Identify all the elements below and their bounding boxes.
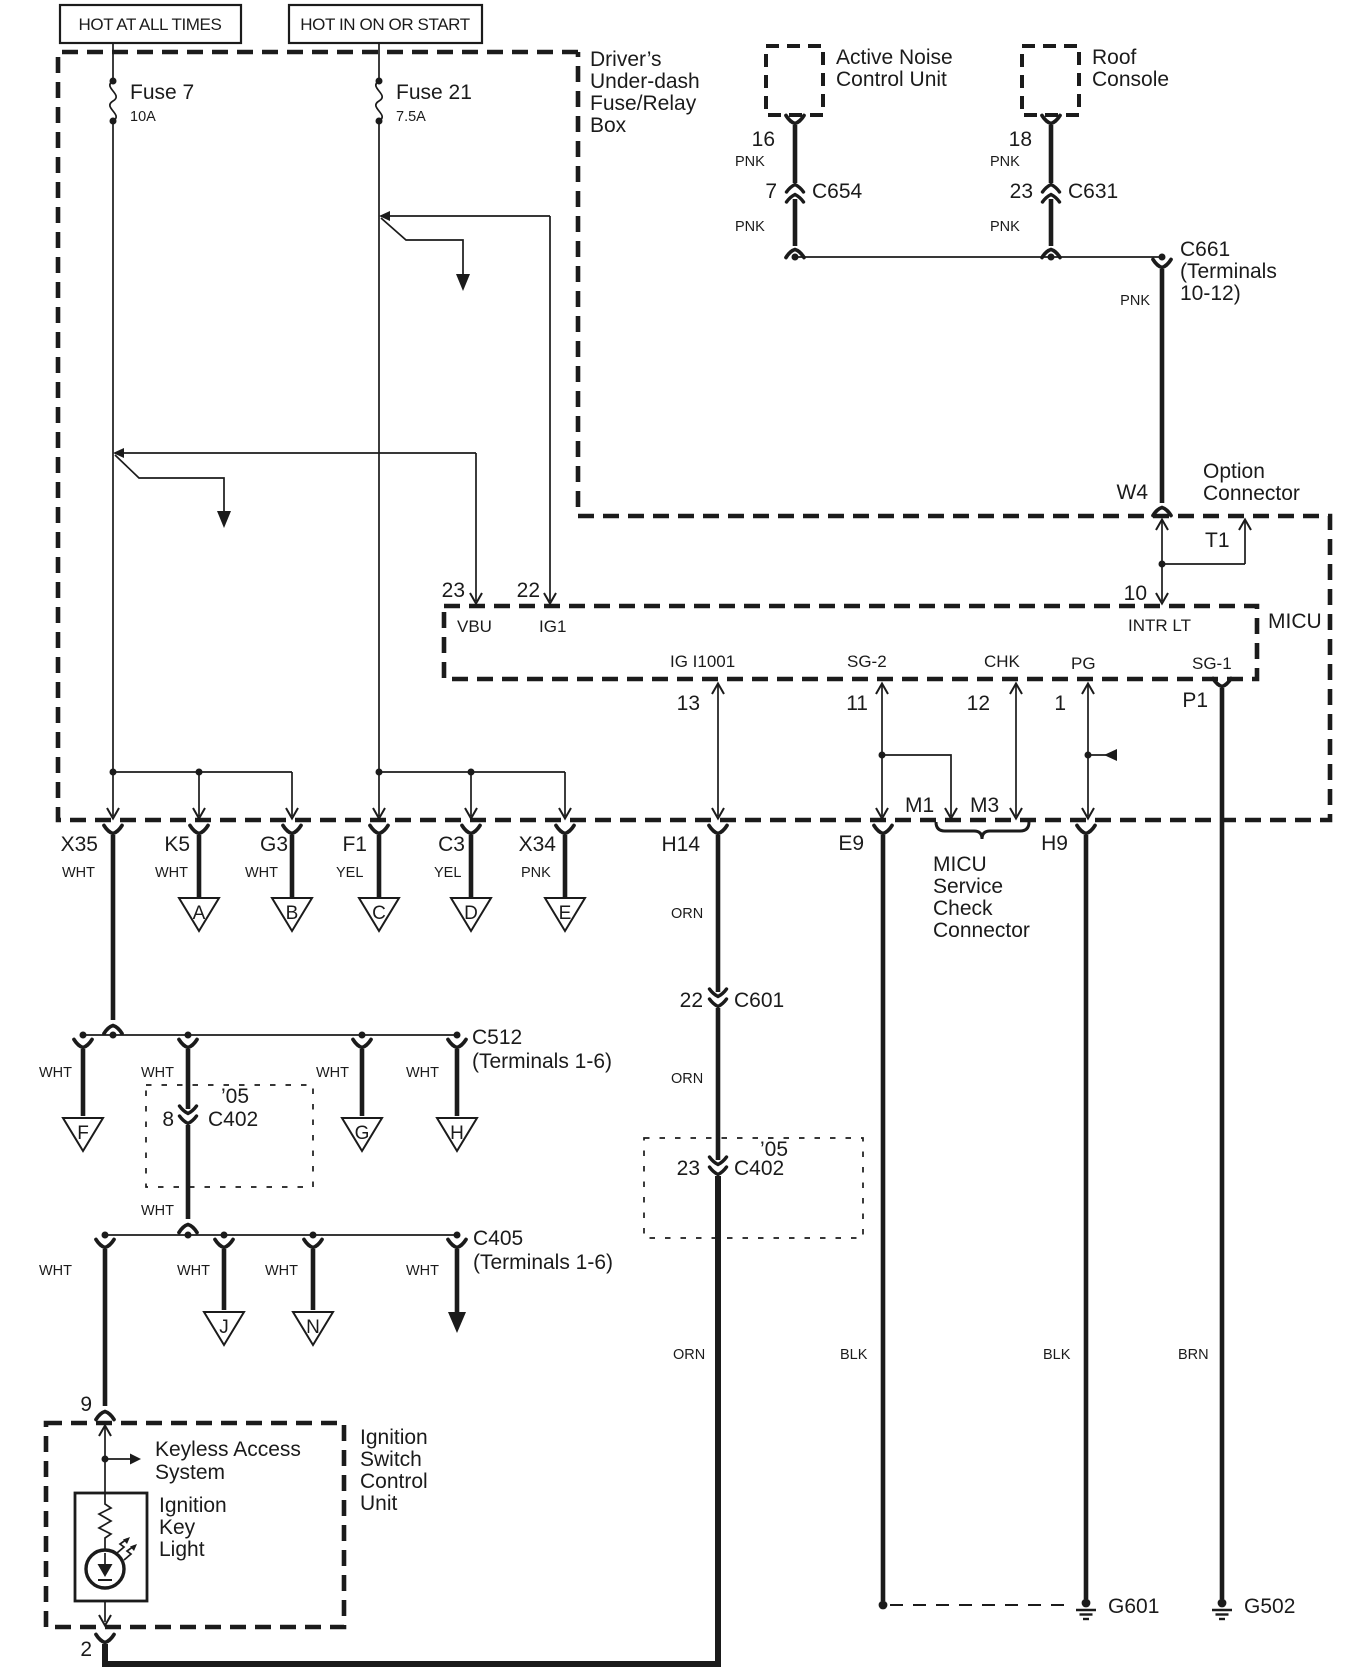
svg-text:SG-2: SG-2 [847,652,887,671]
svg-text:ORN: ORN [671,1071,703,1087]
svg-text:MICU: MICU [1268,610,1322,633]
svg-text:F1: F1 [342,833,367,856]
svg-text:Roof: Roof [1092,46,1137,69]
svg-text:BLK: BLK [1043,1347,1071,1363]
svg-text:M3: M3 [970,794,999,817]
svg-text:Ignition: Ignition [159,1494,227,1517]
svg-text:7: 7 [765,180,777,203]
svg-text:System: System [155,1461,225,1484]
svg-text:Driver’s: Driver’s [590,48,662,71]
svg-text:18: 18 [1009,128,1032,151]
svg-text:PNK: PNK [1120,293,1150,309]
svg-text:K5: K5 [164,833,190,856]
svg-text:IG1: IG1 [539,617,566,636]
svg-text:Box: Box [590,114,627,137]
svg-text:YEL: YEL [336,865,363,881]
svg-text:WHT: WHT [62,865,95,881]
svg-text:WHT: WHT [141,1203,174,1219]
svg-text:10-12): 10-12) [1180,282,1241,305]
svg-text:CHK: CHK [984,652,1021,671]
svg-text:16: 16 [752,128,775,151]
svg-text:Keyless Access: Keyless Access [155,1438,301,1461]
svg-text:Connector: Connector [1203,482,1300,505]
svg-text:Control: Control [360,1470,428,1493]
svg-text:E: E [559,903,572,924]
svg-text:E9: E9 [838,832,864,855]
svg-text:Under-dash: Under-dash [590,70,700,93]
svg-text:WHT: WHT [316,1065,349,1081]
svg-text:H9: H9 [1041,832,1068,855]
svg-text:Active Noise: Active Noise [836,46,953,69]
svg-text:M1: M1 [905,794,934,817]
svg-text:WHT: WHT [245,865,278,881]
svg-text:9: 9 [80,1393,92,1416]
svg-text:8: 8 [162,1108,174,1131]
svg-text:W4: W4 [1117,481,1149,504]
svg-text:WHT: WHT [265,1263,298,1279]
svg-text:Ignition: Ignition [360,1426,428,1449]
svg-text:(Terminals: (Terminals [1180,260,1277,283]
svg-text:Fuse/Relay: Fuse/Relay [590,92,697,115]
svg-text:G601: G601 [1108,1595,1159,1618]
svg-text:’05: ’05 [221,1085,249,1108]
svg-text:BRN: BRN [1178,1347,1209,1363]
svg-text:PNK: PNK [990,219,1020,235]
svg-text:Fuse 7: Fuse 7 [130,81,194,104]
svg-text:Service: Service [933,875,1003,898]
svg-text:PG: PG [1071,654,1096,673]
svg-text:MICU: MICU [933,853,987,876]
svg-text:C601: C601 [734,989,784,1012]
svg-text:Unit: Unit [360,1492,398,1515]
svg-text:C631: C631 [1068,180,1118,203]
svg-text:G3: G3 [260,833,288,856]
svg-text:B: B [286,903,299,924]
svg-text:WHT: WHT [177,1263,210,1279]
svg-text:ORN: ORN [671,906,703,922]
svg-text:7.5A: 7.5A [396,109,426,125]
svg-text:PNK: PNK [735,154,765,170]
svg-text:YEL: YEL [434,865,461,881]
svg-text:ORN: ORN [673,1347,705,1363]
svg-text:22: 22 [517,579,540,602]
svg-text:WHT: WHT [39,1263,72,1279]
svg-text:WHT: WHT [141,1065,174,1081]
svg-text:Key: Key [159,1516,196,1539]
svg-text:Fuse 21: Fuse 21 [396,81,472,104]
svg-text:C3: C3 [438,833,465,856]
svg-text:Switch: Switch [360,1448,422,1471]
svg-text:X34: X34 [519,833,557,856]
svg-text:Connector: Connector [933,919,1030,942]
svg-text:F: F [77,1123,89,1144]
svg-text:C: C [372,903,386,924]
svg-text:IG I1001: IG I1001 [670,652,735,671]
svg-text:BLK: BLK [840,1347,868,1363]
svg-text:23: 23 [677,1157,700,1180]
svg-text:G: G [355,1123,370,1144]
svg-text:G502: G502 [1244,1595,1295,1618]
svg-text:10A: 10A [130,109,156,125]
svg-text:Light: Light [159,1538,205,1561]
svg-text:X35: X35 [61,833,98,856]
svg-text:PNK: PNK [990,154,1020,170]
svg-text:(Terminals 1-6): (Terminals 1-6) [473,1251,613,1274]
svg-text:12: 12 [967,692,990,715]
svg-text:Control Unit: Control Unit [836,68,947,91]
svg-text:PNK: PNK [521,865,551,881]
svg-text:2: 2 [80,1638,92,1661]
svg-text:22: 22 [680,989,703,1012]
svg-text:A: A [193,903,206,924]
svg-text:1: 1 [1054,692,1066,715]
svg-text:P1: P1 [1182,689,1208,712]
svg-text:N: N [306,1317,320,1338]
svg-text:H: H [450,1123,464,1144]
svg-text:(Terminals 1-6): (Terminals 1-6) [472,1050,612,1073]
svg-text:23: 23 [442,579,465,602]
svg-text:C402: C402 [734,1157,784,1180]
svg-text:WHT: WHT [406,1263,439,1279]
svg-text:13: 13 [677,692,700,715]
svg-text:WHT: WHT [39,1065,72,1081]
svg-text:Check: Check [933,897,993,920]
svg-text:C654: C654 [812,180,863,203]
svg-text:Console: Console [1092,68,1169,91]
svg-text:D: D [464,903,478,924]
svg-text:INTR LT: INTR LT [1128,616,1191,635]
svg-text:PNK: PNK [735,219,765,235]
svg-text:10: 10 [1124,582,1147,605]
svg-text:C512: C512 [472,1026,522,1049]
svg-text:H14: H14 [661,833,700,856]
svg-text:11: 11 [846,692,868,715]
svg-text:SG-1: SG-1 [1192,654,1232,673]
svg-text:HOT AT ALL TIMES: HOT AT ALL TIMES [79,15,222,34]
svg-text:WHT: WHT [406,1065,439,1081]
svg-text:HOT IN ON OR START: HOT IN ON OR START [300,15,469,34]
svg-text:C405: C405 [473,1227,523,1250]
svg-text:C402: C402 [208,1108,258,1131]
svg-text:VBU: VBU [457,617,492,636]
svg-text:T1: T1 [1205,529,1230,552]
svg-text:J: J [219,1317,229,1338]
svg-text:C661: C661 [1180,238,1230,261]
svg-text:23: 23 [1010,180,1033,203]
svg-text:WHT: WHT [155,865,188,881]
svg-text:Option: Option [1203,460,1265,483]
